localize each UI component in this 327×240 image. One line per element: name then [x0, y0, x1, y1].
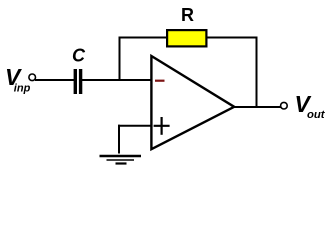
op-amp inverting input minus sign	[155, 80, 165, 82]
ground	[100, 156, 142, 164]
wire feedback top right horizontal	[207, 37, 257, 39]
label Vinp	[5, 64, 31, 94]
wire feedback left vertical	[119, 38, 121, 82]
label Vout	[295, 91, 326, 121]
node Vinp input terminal circle	[29, 74, 36, 81]
wire input terminal to capacitor	[35, 79, 74, 81]
svg-text:R: R	[181, 5, 194, 25]
wire non-inverting input down to ground	[118, 125, 120, 154]
op-amp non-inverting input plus sign	[154, 117, 170, 135]
wire non-inverting input horizontal	[118, 125, 151, 127]
wire feedback right vertical down to output node	[256, 37, 258, 108]
op-amp U1 triangle	[151, 56, 234, 149]
wire capacitor to op-amp inverting input (node with feedback T-junction)	[82, 79, 151, 81]
wire feedback top left horizontal	[119, 37, 168, 39]
wire output	[233, 106, 281, 108]
capacitor C plates	[74, 69, 83, 94]
svg-text:C: C	[72, 46, 86, 66]
svg-text:out: out	[307, 109, 326, 121]
resistor R body	[167, 30, 206, 46]
node Vout output terminal circle	[281, 102, 288, 109]
svg-text:inp: inp	[14, 82, 31, 94]
